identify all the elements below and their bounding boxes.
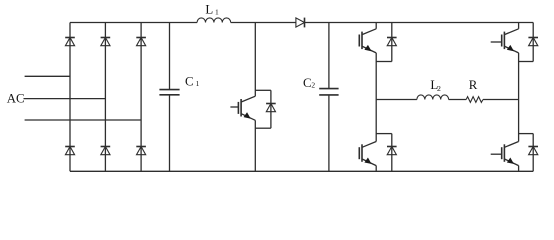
svg-text:C: C [303, 76, 312, 90]
svg-text:1: 1 [215, 7, 219, 16]
svg-text:R: R [469, 78, 478, 92]
svg-text:1: 1 [196, 79, 200, 88]
svg-text:2: 2 [311, 81, 315, 90]
svg-text:AC: AC [7, 92, 25, 106]
svg-text:C: C [185, 74, 194, 88]
svg-text:2: 2 [437, 84, 441, 93]
svg-text:L: L [205, 2, 213, 16]
